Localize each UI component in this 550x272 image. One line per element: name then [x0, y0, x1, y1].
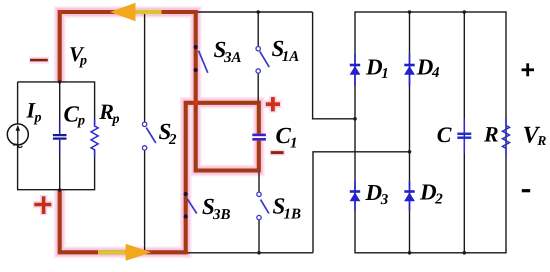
switch S3A blade	[199, 51, 208, 73]
wire red path: piezo top rail through S3A down to C1 bottom plate	[60, 12, 259, 171]
node bridge top at C branch	[463, 10, 467, 14]
switch S1B blade	[261, 200, 269, 214]
diode D1	[350, 54, 361, 86]
label S1A	[272, 36, 300, 65]
switch S1A contacts	[256, 47, 260, 74]
node bridge top at D4 branch	[408, 10, 412, 14]
label S1B	[273, 193, 302, 222]
label D2	[419, 180, 443, 208]
node piezo bottom junction	[58, 188, 61, 191]
switch S1A blade	[260, 51, 269, 67]
node corner mark at top-left of loop	[58, 10, 62, 14]
wire bottom black rail	[186, 252, 313, 254]
label Ip	[26, 98, 42, 126]
wire bridge middle branch (D4/D2)	[409, 12, 411, 253]
wire red path: C1 top plate through S3B and bottom rail back to piezo	[60, 103, 259, 253]
svg-text:3B: 3B	[212, 207, 231, 223]
diode D3	[350, 181, 361, 211]
current-direction arrow on top rail (points left)	[110, 3, 162, 21]
current source Ip	[7, 124, 28, 148]
svg-text:1: 1	[381, 66, 389, 82]
wire top rail from S3A column to upper AC corner	[196, 11, 313, 13]
svg-text:p: p	[79, 53, 87, 68]
current-direction arrow on bottom rail (points right)	[98, 244, 151, 261]
wire lower AC connection from bridge to bottom rail	[313, 152, 410, 253]
switch S3B contacts	[184, 192, 188, 219]
C1 negative polarity sign	[270, 149, 286, 156]
node bridge bottom at C branch	[463, 251, 467, 255]
switch S3A contacts	[194, 45, 198, 72]
svg-text:1A: 1A	[282, 49, 300, 65]
svg-text:3: 3	[380, 192, 389, 208]
node upper AC input on D1/D3 branch	[353, 117, 357, 121]
svg-text:R: R	[536, 133, 546, 148]
node bridge bottom at D4 branch	[408, 251, 412, 255]
svg-text:C: C	[437, 122, 452, 147]
node lower AC input on D4/D2 branch	[408, 150, 412, 154]
svg-text:1B: 1B	[284, 206, 302, 222]
svg-text:p: p	[34, 111, 42, 126]
VR positive polarity sign	[522, 63, 535, 76]
wire S2 column upper	[144, 12, 146, 122]
svg-text:4: 4	[431, 65, 440, 81]
wire pink highlight halo of flipping current loop	[60, 12, 259, 252]
wire S1B column lower	[258, 220, 260, 253]
label C1	[276, 123, 298, 152]
switch S2 contacts	[142, 122, 146, 150]
VR negative polarity sign	[522, 189, 530, 192]
switch S1B contacts	[257, 192, 261, 220]
wire Cp branch lower segment	[59, 154, 61, 190]
svg-text:p: p	[112, 112, 120, 127]
wire S1A column upper	[257, 12, 259, 46]
node S1B bottom junction	[257, 251, 261, 255]
label D1	[365, 55, 389, 82]
capacitor Cp	[53, 120, 67, 155]
bridge rectifier and load outline box	[355, 12, 506, 253]
capacitor C1 plates	[252, 135, 266, 139]
wire S1A column lower	[257, 73, 259, 101]
label Vp	[69, 42, 87, 68]
svg-text:D: D	[365, 180, 383, 205]
node S1A top junction	[256, 10, 260, 14]
C1 positive polarity sign	[265, 96, 282, 113]
label D4	[416, 55, 440, 82]
Vp positive polarity sign	[33, 195, 53, 215]
svg-text:1: 1	[290, 135, 298, 151]
svg-text:2: 2	[434, 192, 443, 208]
label S3B	[202, 194, 231, 223]
label Cp	[64, 102, 86, 129]
svg-text:R: R	[483, 121, 499, 146]
diode D4	[404, 54, 415, 86]
svg-text:D: D	[419, 180, 437, 205]
node piezo top junction	[58, 80, 61, 83]
resistor Rp	[91, 119, 98, 157]
wire filter capacitor C branch	[463, 12, 465, 253]
piezo equivalent-source box outline	[18, 82, 95, 190]
node overlap mark at S3A column crossing C1 top lead	[194, 101, 198, 105]
Vp negative polarity sign	[29, 57, 49, 64]
label S2	[159, 119, 178, 148]
capacitor C (filter)	[457, 119, 471, 153]
wire upper AC connection into bridge	[313, 12, 355, 119]
svg-text:2: 2	[168, 132, 177, 148]
switch S3B blade	[187, 199, 197, 214]
svg-text:D: D	[365, 55, 383, 80]
svg-text:p: p	[77, 114, 85, 129]
label D3	[365, 180, 389, 208]
switch S2 blade	[146, 128, 156, 144]
wire S1B column upper	[258, 171, 260, 193]
wire S2 column lower	[144, 150, 146, 252]
diode D2	[404, 181, 415, 211]
svg-text:3A: 3A	[223, 50, 242, 66]
label VR	[523, 123, 547, 149]
label S3A	[214, 37, 242, 66]
label Rp	[98, 99, 119, 127]
wire Cp branch upper segment	[59, 82, 61, 121]
resistor R (load)	[503, 118, 510, 156]
